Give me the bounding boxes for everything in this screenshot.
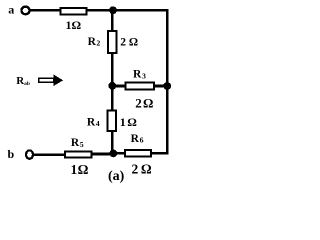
wire R5 to node D <box>92 153 114 156</box>
resistor R5 <box>65 152 91 158</box>
svg-text:1Ω: 1Ω <box>66 18 82 32</box>
wire R2 to node C <box>111 53 114 86</box>
terminal b <box>26 150 33 159</box>
svg-text:2Ω: 2Ω <box>132 161 152 176</box>
wire node A to top-right corner <box>113 9 168 12</box>
svg-text:2Ω: 2Ω <box>135 96 153 111</box>
svg-text:2 Ω: 2 Ω <box>120 37 138 49</box>
resistor R4 <box>107 111 116 132</box>
node a terminal label <box>8 3 14 17</box>
svg-text:1Ω: 1Ω <box>71 162 89 177</box>
junction node on right wire <box>163 82 171 90</box>
wire R3 to right side <box>154 85 167 88</box>
svg-text:1Ω: 1Ω <box>120 115 137 129</box>
svg-text:(a): (a) <box>108 169 125 184</box>
junction node D (bottom) <box>109 150 117 158</box>
wire node A down to R2 <box>111 10 114 32</box>
resistor R2 <box>108 31 116 53</box>
wire a to R1 <box>30 9 61 12</box>
wire node C down to R4 <box>111 86 114 111</box>
wire R6 to bottom-right corner <box>151 152 168 155</box>
value label 2 ohm for R6 <box>132 161 152 176</box>
value label 1 ohm for R4 <box>120 115 137 129</box>
value label 1 ohm for R5 <box>71 162 89 177</box>
label R4 <box>87 116 100 128</box>
junction node C (middle) <box>108 82 116 90</box>
junction node A (top) <box>109 6 117 14</box>
caption (a) <box>108 169 125 184</box>
wire b to R5 <box>33 154 65 157</box>
terminal a <box>21 7 29 15</box>
wire node D to R6 <box>113 152 126 155</box>
label R6 <box>131 133 144 145</box>
wire right side vertical <box>166 9 169 153</box>
resistor R6 <box>125 150 151 157</box>
label R2 <box>88 36 101 48</box>
label R5 <box>71 137 84 149</box>
arrow Rab direction <box>39 74 63 86</box>
label R3 <box>133 69 146 81</box>
svg-text:b: b <box>8 147 15 161</box>
node b terminal label <box>8 147 15 161</box>
wire node C to R3 <box>112 85 126 88</box>
wire R1 to node A <box>87 9 113 12</box>
wire R4 to node D <box>111 130 114 153</box>
value label 2 ohm for R3 <box>135 96 153 111</box>
resistor R1 <box>60 8 86 14</box>
resistor R3 <box>126 83 155 90</box>
value label 2 ohm for R2 <box>120 37 138 49</box>
svg-text:a: a <box>8 3 14 17</box>
value label 1 ohm for R1 <box>66 18 82 32</box>
label Rab <box>16 75 30 87</box>
